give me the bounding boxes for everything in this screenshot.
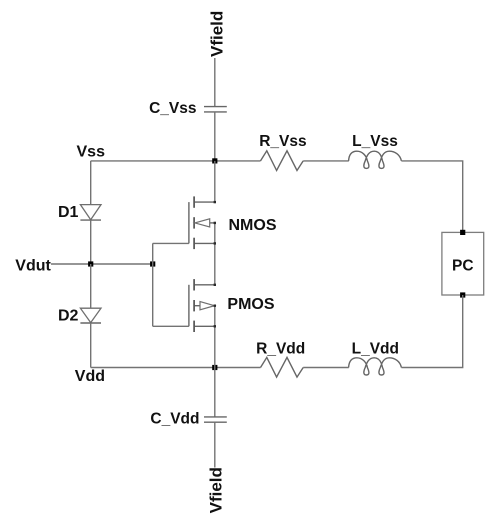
svg-text:L_Vdd: L_Vdd [352, 341, 399, 358]
svg-text:Vfield: Vfield [208, 11, 227, 57]
wire PMOS gate lead [153, 325, 189, 327]
node NMOS bulk corner [214, 222, 216, 224]
wire L_Vdd to R_Vdd [303, 367, 349, 369]
node PC bottom pin [460, 292, 465, 297]
wire D1 to Vdut [90, 220, 92, 264]
svg-text:PC: PC [452, 257, 474, 274]
wire rail NMOS bulk to PMOS drain [214, 223, 216, 285]
svg-text:Vdut: Vdut [15, 257, 51, 274]
svg-text:PMOS: PMOS [227, 296, 274, 313]
svg-text:C_Vdd: C_Vdd [150, 411, 199, 428]
node Vss junction [212, 158, 217, 163]
svg-text:Vdd: Vdd [75, 368, 105, 385]
diode D2 [80, 308, 101, 323]
capacitor C_Vss [204, 107, 227, 112]
transistor NMOS [189, 196, 215, 249]
svg-text:C_Vss: C_Vss [149, 100, 196, 117]
svg-text:L_Vss: L_Vss [352, 133, 398, 150]
inductor L_Vss [349, 151, 402, 168]
wire Vdd horizontal [91, 367, 261, 369]
wire Vss horizontal left segment [91, 160, 261, 162]
resistor R_Vss [261, 151, 304, 171]
wire rail PMOS bulk to Vdd junction [214, 306, 216, 368]
svg-text:R_Vdd: R_Vdd [256, 341, 305, 358]
wire C_Vdd to bottom Vfield [214, 422, 216, 467]
diode D1 [80, 205, 101, 221]
resistor R_Vdd [261, 357, 304, 377]
node PC top pin [460, 230, 465, 235]
node Vdut junction right [150, 261, 155, 266]
wire top Vfield to C_Vss [214, 58, 216, 106]
wire R_Vss to L_Vss [303, 160, 349, 162]
svg-text:D2: D2 [58, 308, 79, 325]
component PC box [442, 232, 484, 295]
wire Vdd node down to C_Vdd [214, 368, 216, 417]
node PMOS drain corner [214, 284, 216, 286]
wire D2 branch [90, 264, 92, 308]
capacitor C_Vdd [204, 417, 227, 422]
wire left branch Vss to D1 [90, 161, 92, 205]
svg-text:D1: D1 [58, 204, 79, 221]
node Vdd junction [212, 365, 217, 370]
wire C_Vss to Vss node [214, 112, 216, 161]
wire D2 to Vdd [90, 323, 92, 368]
node PMOS bulk corner [214, 305, 216, 307]
wire gate bus vertical [152, 243, 154, 326]
svg-text:Vss: Vss [77, 143, 106, 160]
transistor PMOS [189, 279, 215, 332]
wire Vdut horizontal [51, 263, 153, 265]
svg-text:NMOS: NMOS [229, 217, 277, 234]
node Vdut junction left [88, 261, 93, 266]
wire L_Vss to right corner and down to PC [401, 161, 462, 233]
wire NMOS gate lead [153, 242, 189, 244]
node PMOS source tee [214, 325, 216, 327]
wire PC bottom down to Vdd corner [401, 295, 462, 368]
svg-text:Vfield: Vfield [207, 467, 226, 513]
node NMOS drain corner [214, 201, 216, 203]
node NMOS source tee [214, 242, 216, 244]
wire rail Vss junction to NMOS drain [214, 161, 216, 202]
inductor L_Vdd [349, 358, 402, 375]
svg-text:R_Vss: R_Vss [259, 133, 306, 150]
